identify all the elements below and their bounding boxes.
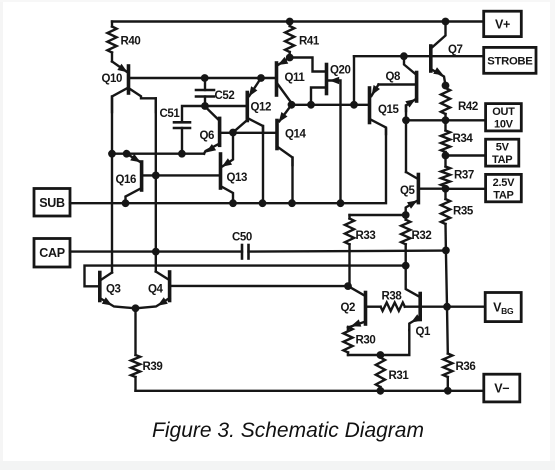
- svg-text:TAP: TAP: [493, 189, 513, 201]
- capacitor C50: [232, 232, 252, 259]
- svg-text:Q2: Q2: [341, 302, 356, 314]
- wire CAP line left of C50: [70, 250, 242, 252]
- wire Q4 base line: [172, 285, 349, 288]
- terminal box CAP: [34, 239, 70, 268]
- node: R42 bottom / OUT junction: [442, 116, 450, 124]
- resistor R36: [443, 307, 475, 391]
- svg-text:C51: C51: [160, 108, 181, 120]
- svg-text:Q1: Q1: [416, 326, 432, 338]
- svg-text:Q8: Q8: [386, 71, 402, 83]
- terminal box VBG: [485, 293, 521, 322]
- node: Q14 collector on SUB line: [288, 199, 296, 207]
- node: C52 bottom / Q12 base node: [201, 102, 209, 110]
- wire R30/Q1-emitter to R31 top: [348, 330, 409, 355]
- transistor Q8 (PNP): [379, 56, 417, 111]
- node: junction Q16/Q13 base line on x=156 vertical: [152, 172, 160, 180]
- transistor Q7 (NPN): [431, 22, 463, 86]
- node: R36 bottom on V- line: [444, 387, 452, 395]
- transistor Q5 (PNP): [400, 172, 446, 215]
- svg-text:R35: R35: [453, 206, 474, 218]
- svg-text:TAP: TAP: [492, 154, 512, 166]
- node: Q6/Q14 base junction: [229, 129, 237, 137]
- wire SUB line: [70, 129, 386, 203]
- svg-text:2.5V: 2.5V: [493, 177, 515, 189]
- node: junction of left vertical with Q6-emitter line: [108, 150, 116, 158]
- terminal box OUT 10V: [486, 104, 522, 131]
- svg-text:CAP: CAP: [39, 246, 65, 260]
- wire Q10 collector-right vertical down to Q4 collector: [155, 98, 157, 271]
- wire right chain vertical R35-VBG: [446, 250, 447, 306]
- resistor R31: [376, 355, 410, 391]
- wire R33/R32 top line / Q5 emitter node: [350, 214, 406, 216]
- node: R41 bottom junction: [286, 54, 294, 62]
- node: Q20 lower terminal on mid rail: [307, 101, 315, 109]
- svg-text:R36: R36: [456, 361, 476, 373]
- wire Q10 base line to Q11: [130, 77, 275, 79]
- svg-text:Q16: Q16: [116, 174, 137, 186]
- svg-text:R32: R32: [412, 230, 432, 242]
- node: Q12 collector on SUB line: [259, 199, 267, 207]
- node: C52 top on Q10-Q11 base line: [201, 74, 209, 82]
- svg-text:R31: R31: [389, 370, 410, 382]
- wire 5V tap line: [446, 154, 486, 156]
- node: OUT junction at Q8/Q5: [402, 116, 410, 124]
- terminal box 5V TAP: [486, 139, 519, 166]
- resistor R32: [401, 215, 431, 266]
- resistor R35: [441, 189, 474, 251]
- svg-text:10V: 10V: [494, 119, 514, 131]
- svg-text:Figure 3. Schematic Diagram: Figure 3. Schematic Diagram: [152, 419, 424, 442]
- svg-text:R37: R37: [454, 170, 474, 182]
- svg-text:R39: R39: [143, 361, 163, 373]
- transistor Q3 (NPN): [100, 273, 136, 309]
- node: Q11 collector / Q14 emitter junction: [288, 101, 296, 109]
- svg-text:Q11: Q11: [285, 72, 306, 84]
- transistor Q1 (NPN): [406, 266, 431, 338]
- transistor Q15 (PNP): [370, 85, 400, 135]
- node: R33 bottom / Q4 base / Q2 collector junction: [344, 282, 352, 290]
- node: Q7 emitter / R42 top junction: [442, 82, 450, 90]
- terminal box SUB: [34, 189, 70, 217]
- node: 2.5V tap junction: [442, 185, 450, 193]
- resistor R33: [345, 215, 376, 286]
- svg-text:V−: V−: [494, 382, 509, 396]
- resistor R40: [107, 22, 140, 62]
- resistor R30: [343, 327, 375, 355]
- transistor Q2 (NPN): [341, 286, 366, 330]
- svg-text:R41: R41: [299, 36, 320, 48]
- node: CAP line junction with right chain: [442, 247, 450, 255]
- svg-text:OUT: OUT: [492, 106, 515, 118]
- terminal box V+: [484, 11, 522, 36]
- resistor R34: [441, 120, 474, 155]
- wire V- line: [136, 390, 484, 392]
- wire Q14 collector vertical to SUB line: [291, 158, 293, 204]
- svg-text:C52: C52: [215, 90, 235, 102]
- transistor Q10 (PNP): [102, 62, 156, 113]
- svg-text:Q13: Q13: [227, 172, 248, 184]
- transistor Q6 (NPN): [200, 108, 220, 154]
- wire Q10 collector-left vertical down to Q3: [111, 97, 113, 273]
- svg-text:R34: R34: [453, 133, 474, 145]
- svg-text:5V: 5V: [496, 141, 510, 153]
- transistor Q14 (PNP): [222, 105, 307, 165]
- resistor R37: [441, 156, 474, 189]
- resistor R41: [285, 22, 320, 58]
- node: Q12 emitter tap on base line: [257, 74, 265, 82]
- svg-text:Q5: Q5: [400, 185, 416, 197]
- terminal box STROBE: [484, 47, 536, 73]
- node: 5V tap junction: [442, 152, 450, 160]
- svg-text:STROBE: STROBE: [487, 55, 533, 67]
- svg-text:Q15: Q15: [378, 104, 400, 116]
- wire R38 to VBG line: [405, 306, 485, 308]
- svg-text:R38: R38: [382, 291, 403, 303]
- node: R31 bottom on V- line: [377, 387, 385, 395]
- svg-text:R40: R40: [121, 36, 141, 48]
- svg-text:Q12: Q12: [251, 102, 272, 114]
- node: Q5 emitter / R32 top junction: [402, 211, 410, 219]
- wire V+ rail: [112, 20, 484, 22]
- wire Q6 emitter line y=153.7: [112, 152, 204, 154]
- node: Q13 collector on SUB line: [229, 199, 237, 207]
- svg-text:Q10: Q10: [102, 73, 123, 85]
- wire Q8 emitter / Q5 collector vertical: [405, 106, 407, 173]
- wire OUT line: [406, 119, 486, 121]
- capacitor C51: [160, 106, 205, 154]
- svg-text:R42: R42: [458, 101, 478, 113]
- svg-text:Q3: Q3: [106, 284, 121, 296]
- wire 2.5V tap line: [446, 188, 486, 190]
- node: Q16 collector on SUB line: [122, 199, 130, 207]
- resistor R39: [131, 308, 163, 391]
- transistor Q4 (NPN): [136, 272, 170, 309]
- svg-text:Q4: Q4: [148, 284, 164, 296]
- node: Q20 emitter on SUB line: [337, 199, 345, 207]
- node: R32 bottom / Q1 collector junction: [402, 262, 410, 270]
- node: STROBE riser junction on mid rail: [350, 101, 358, 109]
- transistor Q11 (PNP): [277, 57, 306, 105]
- svg-text:Q14: Q14: [285, 129, 307, 141]
- node: Q7 collector junction on V+ rail: [442, 18, 450, 26]
- terminal box V-: [484, 374, 520, 402]
- svg-text:Q20: Q20: [330, 65, 351, 77]
- node: junction CAP line on x=156 vertical: [152, 248, 160, 256]
- resistor R38 (horizontal): [368, 291, 405, 311]
- node: VBG junction: [443, 303, 451, 311]
- svg-text:V+: V+: [495, 17, 510, 31]
- transistor Q13 (PNP): [221, 133, 248, 204]
- wire bandgap feedback line y=265.6: [85, 266, 406, 287]
- node: R31 top junction: [377, 351, 385, 359]
- node: R41 top junction on V+ rail: [286, 18, 294, 26]
- svg-text:C50: C50: [232, 232, 252, 244]
- node: Q16 emitter takeoff: [123, 150, 131, 158]
- transistor Q12 (PNP): [206, 78, 271, 133]
- svg-text:Q7: Q7: [448, 44, 463, 56]
- node: Q3/Q4 emitter junction: [132, 304, 140, 312]
- terminal box 2.5V TAP: [486, 174, 522, 201]
- resistor R42: [441, 88, 478, 120]
- node: Q8 collector junction on strobe line: [400, 52, 408, 60]
- node: C51 bottom junction: [178, 150, 186, 158]
- transistor Q20 (lateral PNP): [290, 58, 351, 204]
- svg-text:R33: R33: [356, 230, 376, 242]
- wire CAP line right of C50: [249, 251, 446, 252]
- svg-text:SUB: SUB: [39, 196, 65, 210]
- wire Q12 collector vertical to SUB line: [262, 126, 264, 203]
- wire mid rail y=104.8: [292, 104, 368, 106]
- capacitor C52: [196, 78, 234, 106]
- svg-text:R30: R30: [356, 335, 376, 347]
- wire STROBE line / Q7 base: [354, 56, 484, 105]
- svg-text:Q6: Q6: [200, 130, 215, 142]
- transistor Q16 (PNP): [116, 154, 219, 204]
